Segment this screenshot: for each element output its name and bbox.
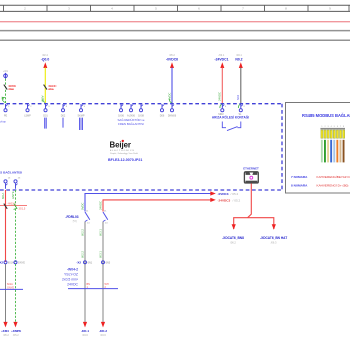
terminal D06 on bus1 [160,104,165,118]
svg-text:+KM4: +KM4 [1,329,9,333]
cable W03 lower line [0,288,23,290]
wire ethernet drop [248,184,252,218]
arrow down KMPE [13,322,17,328]
svg-text:6N1: 6N1 [88,262,93,265]
svg-text:N0.2: N0.2 [235,58,242,62]
svg-text:/03.1: /03.1 [219,53,225,57]
svg-text:/06.3: /06.3 [271,240,277,244]
contact FDRL03 b [103,211,108,225]
svg-text:8: 8 [285,6,287,10]
rotated net 601A on KM4 wire [1,193,5,199]
arrow up 24VDC1 [220,62,224,68]
Beijer model number [108,158,142,162]
terminal D01 on bus1 [43,104,50,118]
svg-text:7 NUMARA: 7 NUMARA [291,175,308,179]
svg-text:1K06: 1K06 [118,115,124,118]
svg-text:24VDC: 24VDC [67,283,78,287]
arrow down cat6 right [272,224,276,230]
wire KM4 red drop [5,190,7,262]
svg-text:KAHVERENGİBEYAZ D- (B: KAHVERENGİBEYAZ D- (B [317,174,350,179]
svg-text:5: 5 [155,6,157,10]
cable W04-2 line [68,288,118,290]
red wire tags beside yellow wire [48,84,56,91]
svg-text:/03.1: /03.1 [236,53,242,57]
arrow up 0VDC6 [170,62,174,68]
corner 0VDC3 [84,193,86,212]
terminal L5MP on bus1 [24,104,32,118]
svg-text:1: 1 [8,106,10,108]
terminal 9L on bus1 [239,104,246,116]
terminal X2:GNYE [14,261,25,265]
terminal X2 left label [0,261,3,265]
svg-text:9: 9 [329,6,331,10]
note MS baglantisi [0,170,22,175]
rotated net 0VDC at FDRL [80,203,84,210]
svg-text:603.1: 603.1 [98,229,102,236]
svg-text:Beijer: Beijer [110,140,131,149]
svg-text:2x0,5 mm²: 2x0,5 mm² [62,278,79,282]
rotated wire number 603.1 upper [98,229,102,236]
svg-text:/06.2: /06.2 [230,240,236,244]
RJ45 wire stripes [321,140,345,163]
svg-text:7: 7 [242,6,244,10]
terminal SKMP on bus1 [77,104,85,118]
RJ45 pins [321,130,345,138]
svg-text:L5MP: L5MP [24,115,31,118]
arrow down KD2 [101,322,105,328]
svg-text:-X2: -X2 [0,261,3,265]
wire 24VDC3 [103,199,212,201]
wire blue 0VDC6 [171,68,173,104]
wire KD1 drop [84,222,86,323]
svg-text:YSLY-OZ: YSLY-OZ [64,273,78,277]
rotated net name 24VDC [218,92,222,101]
green hook N0.2 bus entry [238,104,240,108]
svg-text:BFI-E3-12-0070-IP21: BFI-E3-12-0070-IP21 [108,158,142,162]
svg-text:2: 2 [30,106,32,108]
svg-text:-0VDC6: -0VDC6 [166,58,178,62]
svg-text:-FDRL03: -FDRL03 [65,215,78,219]
svg-text:6: 6 [198,6,200,10]
svg-text:2: 2 [244,106,246,108]
green hook at yellow wire bus entry [43,99,45,103]
svg-text:5: 5 [84,106,86,108]
svg-text:+KMPE: +KMPE [11,329,21,333]
green hook 0VDC6 bus entry [170,99,172,103]
arrow up Q0.0 [43,62,47,68]
rotated net name on yellow wire [40,95,44,102]
arrow down cat6 left [232,224,236,230]
svg-text:çıkışı: çıkışı [0,120,6,124]
svg-text:KAHVERENGİ D+ (B0): KAHVERENGİ D+ (B0) [317,183,349,188]
wire green dashed PE drop [5,79,7,104]
svg-text:ARIZA RÖLESİ KONTAĞI: ARIZA RÖLESİ KONTAĞI [212,115,249,120]
svg-text:6N3: 6N3 [106,262,111,265]
terminal 1K06 on bus1 [118,104,124,118]
svg-text:ETHERNET: ETHERNET [243,166,259,170]
green hook PE bus entry [2,98,5,103]
svg-text:24: 24 [105,223,108,225]
label XDCAT6_BN8 [222,236,244,244]
svg-text:13: 13 [8,178,11,180]
note text under left bus1 terminals [0,120,6,124]
svg-text:2: 2 [24,6,26,10]
label N0.2 [235,53,242,62]
bus 2 (dashed blue) [0,189,282,191]
svg-text:-0VDC3: -0VDC3 [218,192,229,196]
label 0VDC3 [218,192,239,196]
svg-text:8 NUMARA: 8 NUMARA [291,184,308,188]
arrow down KD1 [83,322,87,328]
svg-text:-XDCAT6_BN HAT: -XDCAT6_BN HAT [260,236,287,240]
label KD-2 [99,329,108,337]
svg-text:People, Technology, Your Profi: People, Technology, Your Profit [110,152,138,155]
svg-text:-X2: -X2 [76,261,81,265]
green hook 24VDC1 bus entry [220,104,222,108]
svg-text:3: 3 [68,6,70,10]
svg-text:N02: N02 [236,94,240,100]
wire KD2 drop [102,222,104,323]
label FDRL03 [65,215,78,223]
svg-text:-24VDC3: -24VDC3 [218,198,231,202]
arrow right 0VDC3 [210,191,216,195]
terminal DKM06 on bus1 [168,104,177,118]
label 24VDC3 [218,198,241,202]
label 24VDC1 [215,53,229,62]
RS485 info box [286,103,350,194]
svg-text:D06: D06 [160,115,165,118]
RS485 box title [302,113,350,118]
svg-text:D01: D01 [43,115,48,118]
label Q0.0 [41,53,50,62]
wire KMPE lower drop [15,264,17,323]
svg-text:/05.2: /05.2 [13,333,19,337]
RS485 row 8 [291,183,348,188]
terminal X2 label [76,261,81,265]
svg-text:/05.2: /05.2 [3,333,9,337]
svg-text:24VDC: 24VDC [98,201,102,210]
svg-text:-W04-2: -W04-2 [67,268,78,272]
contact FDRL03 a [85,211,90,225]
cable W04-2 spec text [62,268,79,287]
label ETHERNET [243,166,259,170]
terminal AUX06 on bus1 [127,104,136,118]
svg-text:[*2]: [*2] [73,220,77,223]
svg-text:ELECTRONICS: ELECTRONICS [110,150,135,152]
svg-text:0VDC: 0VDC [80,203,84,210]
svg-text:602.2: 602.2 [80,229,84,236]
corner 24VDC3 [102,199,104,211]
svg-text:603.1: 603.1 [98,251,102,258]
svg-text:602.2: 602.2 [80,251,84,258]
svg-text:3: 3 [48,106,50,108]
red core tags at KD1 [87,283,91,289]
RJ45 pin numbers [321,126,345,128]
terminal X2:601A [4,261,14,265]
wire KMPE green dashed drop [15,190,17,262]
label 0VDC6 [166,53,178,62]
svg-text:GNYE: GNYE [18,262,25,265]
frame header bottom line [0,10,350,12]
bus riser (dashed blue) [281,104,283,190]
wire 0VDC3 [85,193,212,195]
label KM4 [1,329,9,337]
svg-text:-24VDC1: -24VDC1 [215,58,229,62]
rotated net 24VDC at FDRL [98,201,102,210]
svg-text:-Q0.0: -Q0.0 [41,58,50,62]
label KMPE [11,329,21,337]
svg-text:3G1,5: 3G1,5 [19,207,26,210]
svg-text:/02.4: /02.4 [42,53,48,57]
svg-text:DKM06: DKM06 [168,115,177,118]
svg-text:4: 4 [225,106,227,108]
red wire tags beside PE wire [8,84,16,91]
svg-text:/05.2: /05.2 [169,53,175,57]
wire stub below terminal D02 [62,118,64,128]
relay contact MR2 [222,122,241,131]
terminal MR2 on bus1 [218,104,227,116]
svg-text:FREN BAĞLANTISI: FREN BAĞLANTISI [118,121,144,126]
svg-text:4: 4 [66,106,68,108]
wire yellow Q0.0 [44,68,46,104]
wire KM4 lower drop [5,264,7,323]
header column dividers [4,5,350,11]
rotated net name N02 [236,94,240,100]
svg-text:GNYE: GNYE [7,286,14,289]
rail L2 [0,30,350,32]
connector symbol top-left PE [3,70,9,79]
rotated wire number 602.2 upper [80,229,84,236]
arrow up N0.2 [239,62,243,68]
cable W03 line [0,205,27,207]
svg-text:GNYE: GNYE [11,191,15,199]
svg-text:-KD-2: -KD-2 [99,329,108,333]
svg-text:-XDCAT6_BN8: -XDCAT6_BN8 [222,236,244,240]
Beijer logo [110,140,139,155]
red core tags at KM4 [7,283,14,289]
note text under reducer terminals [118,117,145,126]
svg-text:400V: 400V [40,95,44,102]
svg-text:D02: D02 [61,115,66,118]
ethernet jack icon [244,172,258,183]
wire grey N0.2 [240,68,242,104]
svg-text:AUX06: AUX06 [127,115,136,118]
wire red 24VDC1 [221,68,223,104]
svg-text:14: 14 [87,223,90,225]
svg-text:SKMP: SKMP [77,115,84,118]
svg-text:PE: PE [4,115,8,118]
svg-text:601A: 601A [1,193,5,199]
svg-text:1K08: 1K08 [138,115,144,118]
svg-text:/ 05.2: / 05.2 [233,198,241,202]
terminal PE on bus1 [4,104,10,118]
frame header top line [0,4,350,6]
wire stubs below terminal SKMP [80,118,83,130]
switch blade on PE wire [4,85,7,90]
svg-text:11: 11 [86,211,89,213]
rotated net GNYE on KMPE wire [11,191,15,199]
svg-text:/ 05.2: / 05.2 [231,192,239,196]
blade on KM4 wire [4,204,7,209]
svg-text:/04.6: /04.6 [82,333,88,337]
bus 1 (dashed blue) [0,103,282,105]
arrow down KM4 [3,322,7,328]
svg-text:21: 21 [104,211,107,213]
RS485 row 7 [291,174,350,179]
terminal D02 on bus1 [61,104,68,118]
terminal X2:6N1 [84,261,93,265]
arrow right 24VDC3 [210,198,216,202]
switch blade on yellow wire [44,85,47,90]
svg-text:+W1: +W1 [3,70,9,73]
wire stubs below terminal D01 [45,118,47,129]
red core tags at KD2 [105,283,109,289]
terminal X2:6N3 [102,261,111,265]
svg-text:4: 4 [111,6,113,10]
label XDCAT6_BN HAT [260,236,287,244]
svg-text:601A: 601A [8,262,14,265]
rail L3 [0,39,350,41]
terminal 1K08 on bus1 [138,104,144,118]
svg-text:23: 23 [18,178,21,180]
svg-text:MS BAĞLANTISI: MS BAĞLANTISI [0,170,22,175]
svg-text:/04.6: /04.6 [100,333,106,337]
rotated wire number 603.1 lower [98,251,102,258]
label KD-1 [81,329,90,337]
svg-text:RS485 MODBUS BAĞLANTISI: RS485 MODBUS BAĞLANTISI [302,113,350,118]
svg-text:-KD-1: -KD-1 [81,329,90,333]
note ARIZA relay [212,115,249,120]
rail L1 (pink) [0,21,350,23]
wire cat6 tee [234,218,274,229]
green blade on KMPE wire [14,204,18,210]
header column numbers [24,6,331,10]
rotated net name 0VDC [167,93,171,100]
cable W03 tags [8,202,26,210]
svg-text:24VDC: 24VDC [218,92,222,101]
rotated wire number 602.2 lower [80,251,84,258]
terminal 13 above bus2 [4,178,11,189]
RJ45 connector bar [320,128,345,130]
terminal 23 above bus2 [14,178,21,189]
